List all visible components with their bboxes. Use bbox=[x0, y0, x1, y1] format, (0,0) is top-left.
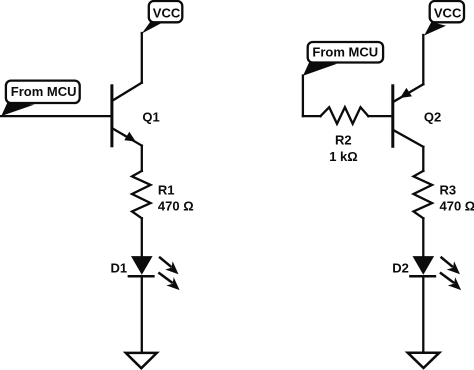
svg-text:VCC: VCC bbox=[153, 6, 181, 21]
resistor R2 bbox=[321, 107, 369, 124]
svg-text:From MCU: From MCU bbox=[11, 84, 77, 99]
net flag From MCU (left) bbox=[1, 81, 79, 116]
wire to R2 bbox=[303, 115, 321, 117]
svg-text:D1: D1 bbox=[111, 261, 128, 276]
wire From MCU to Q1 base bbox=[0, 115, 112, 117]
svg-text:Q1: Q1 bbox=[142, 110, 159, 125]
wire R3 to D2 bbox=[422, 218, 424, 256]
net flag From MCU (right) bbox=[303, 42, 383, 76]
svg-text:R1: R1 bbox=[158, 182, 175, 197]
resistor R1 bbox=[132, 171, 151, 218]
svg-text:470 Ω: 470 Ω bbox=[440, 199, 474, 214]
wire Q1 collector diagonal bbox=[112, 83, 142, 101]
svg-text:D2: D2 bbox=[392, 261, 409, 276]
net flag VCC (right) bbox=[424, 1, 464, 36]
svg-text:Q2: Q2 bbox=[424, 110, 441, 125]
wire D2 to ground bbox=[422, 277, 424, 353]
wire Q2 emitter diagonal bbox=[393, 84, 424, 102]
transistor Q1 bbox=[112, 86, 142, 146]
svg-text:R2: R2 bbox=[335, 133, 352, 148]
svg-text:1 kΩ: 1 kΩ bbox=[329, 149, 358, 164]
svg-text:VCC: VCC bbox=[434, 6, 462, 21]
wire Q1 emitter to R1 bbox=[141, 146, 143, 171]
ground (left) bbox=[126, 353, 157, 368]
svg-text:R3: R3 bbox=[440, 183, 457, 198]
wire From MCU down bbox=[302, 76, 304, 117]
LED D1 bbox=[129, 256, 180, 290]
wire D1 to ground bbox=[141, 277, 143, 353]
wire VCC to Q1 collector bbox=[141, 33, 143, 83]
svg-text:470 Ω: 470 Ω bbox=[158, 199, 194, 214]
wire R1 to D1 bbox=[141, 218, 143, 256]
ground (right) bbox=[408, 353, 440, 368]
wire VCC to Q2 emitter bbox=[422, 35, 424, 84]
wire Q2 collector to R3 bbox=[422, 147, 424, 171]
transistor Q2 bbox=[393, 86, 424, 147]
svg-text:From MCU: From MCU bbox=[312, 45, 378, 60]
LED D2 bbox=[410, 256, 461, 290]
wire R2 to Q2 base bbox=[368, 115, 393, 117]
net flag VCC (left) bbox=[142, 1, 183, 34]
resistor R3 bbox=[414, 171, 433, 218]
